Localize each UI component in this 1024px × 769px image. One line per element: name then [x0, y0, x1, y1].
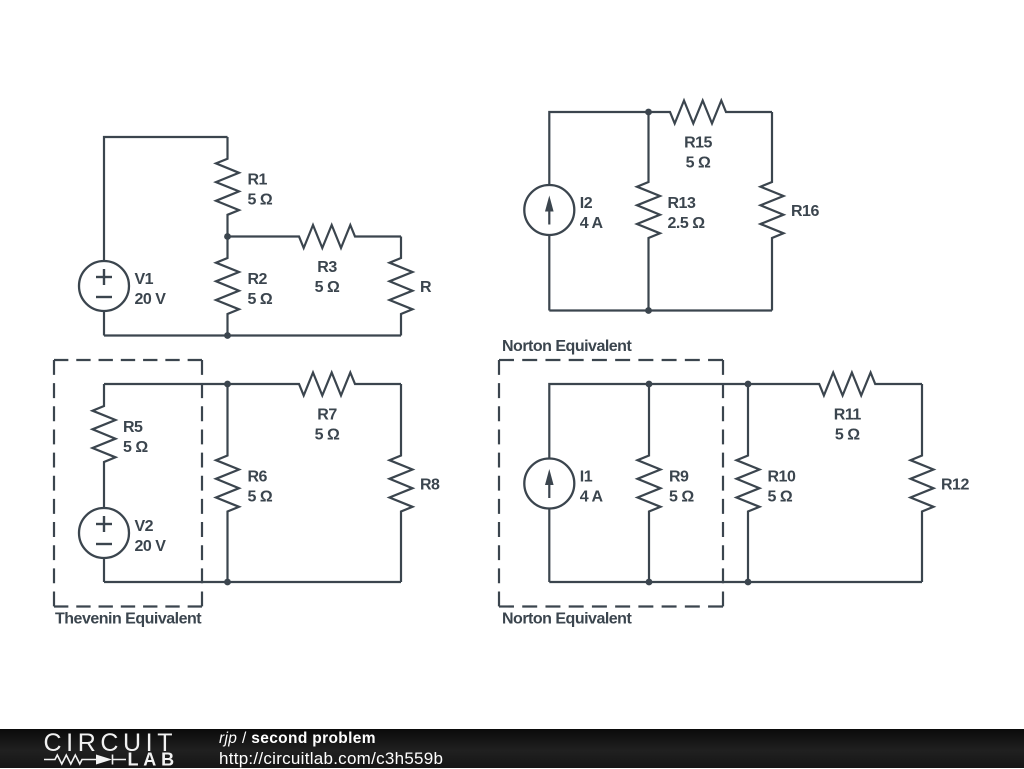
svg-text:4 A: 4 A — [580, 215, 604, 232]
svg-text:R9: R9 — [669, 469, 689, 486]
wire bottom of circuit 1 — [104, 334, 401, 336]
svg-text:Thevenin Equivalent: Thevenin Equivalent — [55, 611, 202, 628]
footer bar — [0, 729, 1024, 768]
svg-text:R7: R7 — [317, 407, 337, 424]
resistor R13 — [637, 112, 660, 311]
svg-text:R1: R1 — [248, 172, 268, 189]
svg-text:5 Ω: 5 Ω — [248, 291, 273, 308]
svg-text:I2: I2 — [580, 195, 593, 212]
svg-text:5 Ω: 5 Ω — [248, 488, 273, 505]
svg-text:LAB: LAB — [128, 750, 179, 769]
svg-text:R10: R10 — [768, 469, 796, 486]
current source I2 — [524, 185, 574, 235]
wire bottom of circuit 3 — [104, 581, 401, 583]
resistor R — [390, 258, 413, 336]
logo resistor-diode symbol — [44, 755, 96, 764]
wire V1 bottom — [103, 311, 105, 336]
svg-text:R11: R11 — [834, 407, 862, 424]
wire top-left loop (V1 top to R1 top) — [104, 137, 228, 261]
voltage source V1 — [79, 261, 129, 311]
resistor R11 top branch — [748, 373, 922, 396]
node H junction dot — [745, 381, 752, 388]
svg-text:R15: R15 — [684, 135, 712, 152]
svg-text:R16: R16 — [791, 203, 819, 220]
node E junction dot — [224, 381, 231, 388]
wire I2 bottom — [548, 235, 550, 311]
current source I1 — [524, 459, 574, 509]
resistor R3 with wire from node A — [228, 225, 402, 248]
node D junction dot — [645, 307, 652, 314]
svg-text:5 Ω: 5 Ω — [768, 488, 793, 505]
wire top of circuit 2 — [549, 112, 648, 185]
footer text — [219, 0, 719, 1]
svg-text:R: R — [420, 279, 432, 296]
node C junction dot — [645, 109, 652, 116]
svg-text:I1: I1 — [580, 469, 593, 486]
Norton equivalent dashed box — [499, 359, 723, 361]
svg-text:V2: V2 — [135, 518, 154, 535]
resistor R9 — [638, 384, 661, 582]
svg-text:5 Ω: 5 Ω — [315, 426, 340, 443]
svg-text:5 Ω: 5 Ω — [248, 192, 273, 209]
node B junction dot — [224, 332, 231, 339]
resistor R10 — [737, 384, 760, 582]
wire V2 bottom — [103, 558, 105, 582]
resistor R6 — [216, 384, 239, 582]
wire I1 bottom — [548, 509, 550, 583]
svg-text:4 A: 4 A — [580, 488, 604, 505]
resistor R15 top branch — [649, 101, 773, 124]
svg-text:R6: R6 — [248, 469, 268, 486]
node J junction dot — [745, 579, 752, 586]
resistor R5 — [93, 384, 116, 484]
svg-text:5 Ω: 5 Ω — [835, 426, 860, 443]
wire bottom of circuit 4 — [549, 581, 922, 583]
svg-text:R3: R3 — [317, 259, 337, 276]
node G junction dot — [646, 381, 653, 388]
resistor R12 right branch — [911, 384, 934, 582]
svg-text:R2: R2 — [248, 271, 268, 288]
svg-text:R8: R8 — [420, 476, 440, 493]
svg-text:R5: R5 — [123, 419, 143, 436]
svg-text:5 Ω: 5 Ω — [123, 439, 148, 456]
svg-text:5 Ω: 5 Ω — [669, 488, 694, 505]
resistor R7 top branch — [228, 373, 402, 396]
svg-text:5 Ω: 5 Ω — [686, 154, 711, 171]
node I junction dot — [646, 579, 653, 586]
Thevenin equivalent dashed box — [54, 359, 202, 361]
resistor R16 right branch — [761, 112, 784, 311]
svg-text:R12: R12 — [941, 476, 969, 493]
CircuitLab logo — [0, 729, 200, 768]
node F junction dot — [224, 579, 231, 586]
wire bottom of circuit 2 — [549, 309, 772, 311]
svg-text:R13: R13 — [668, 195, 696, 212]
svg-text:2.5 Ω: 2.5 Ω — [668, 215, 706, 232]
svg-text:20 V: 20 V — [135, 291, 167, 308]
resistor R1 — [216, 137, 239, 237]
wire right rail down to R — [400, 237, 402, 258]
resistor R2 — [216, 237, 239, 336]
svg-text:Norton Equivalent: Norton Equivalent — [502, 611, 632, 628]
svg-text:V1: V1 — [135, 271, 154, 288]
node A junction dot — [224, 233, 231, 240]
wire top of circuit 3 — [104, 383, 228, 385]
wire top of circuit 4 — [549, 384, 748, 459]
voltage source V2 — [79, 508, 129, 558]
resistor R8 right branch — [390, 384, 413, 582]
svg-text:20 V: 20 V — [135, 538, 167, 555]
wire R5 to V2 — [103, 484, 105, 508]
svg-text:Norton Equivalent: Norton Equivalent — [502, 338, 632, 355]
svg-text:5 Ω: 5 Ω — [315, 279, 340, 296]
